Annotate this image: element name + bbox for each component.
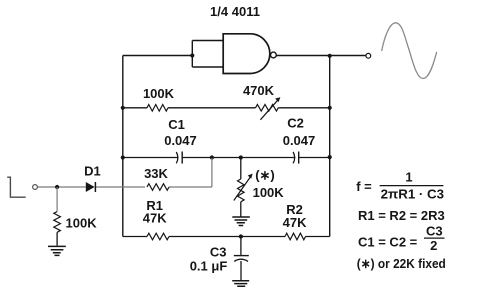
bubble on NAND output: [271, 52, 277, 58]
svg-text:100K: 100K: [253, 185, 285, 200]
svg-text:0.1 μF: 0.1 μF: [190, 259, 228, 274]
node left rail row3: [121, 155, 125, 159]
ground C3: [232, 281, 249, 287]
sine wave symbol: [382, 23, 437, 79]
node C1 junction: [210, 155, 214, 159]
wire left rail: [122, 56, 124, 237]
svg-text:2: 2: [430, 238, 437, 253]
svg-text:0.047: 0.047: [283, 133, 316, 148]
wire top input: [123, 55, 193, 57]
svg-text:0.047: 0.047: [164, 133, 197, 148]
svg-text:C2: C2: [287, 116, 304, 131]
resistor R1 47K: [147, 233, 169, 240]
svg-text:(∗): (∗): [255, 168, 275, 183]
node output junction: [328, 54, 332, 58]
resistor 100K top: [147, 105, 168, 112]
capacitor C1: [176, 152, 178, 163]
input terminal circle: [33, 185, 38, 190]
svg-text:R1 = R2 = 2R3: R1 = R2 = 2R3: [358, 208, 445, 223]
svg-text:C1: C1: [168, 117, 185, 132]
svg-text:470K: 470K: [243, 83, 275, 98]
svg-text:D1: D1: [84, 164, 101, 179]
wire gate input bracket: [192, 41, 223, 68]
wire pulldown gray: [56, 187, 58, 212]
node right rail row3: [328, 155, 332, 159]
potentiometer (*) 100K vertical: [240, 158, 242, 180]
svg-text:100K: 100K: [143, 86, 175, 101]
svg-text:47K: 47K: [143, 211, 167, 226]
capacitor C2: [293, 152, 295, 163]
resistor 100K pulldown: [54, 212, 61, 233]
svg-text:C3: C3: [210, 245, 227, 260]
node pot junction: [239, 155, 243, 159]
wire C1/C2 row: [123, 157, 330, 159]
svg-text:1: 1: [405, 170, 412, 185]
svg-text:33K: 33K: [144, 166, 168, 181]
svg-text:f =: f =: [356, 179, 372, 194]
wire right rail: [329, 56, 331, 237]
svg-text:C1 = C2 =: C1 = C2 =: [358, 235, 418, 250]
resistor 33K: [147, 184, 169, 191]
diode D1: [86, 182, 95, 192]
svg-text:2πR1 · C3: 2πR1 · C3: [381, 187, 445, 202]
output terminal circle: [366, 53, 371, 58]
svg-text:1/4 4011: 1/4 4011: [210, 4, 260, 19]
svg-text:C3: C3: [426, 223, 443, 238]
capacitor C3: [240, 237, 242, 255]
potentiometer 470K: [256, 105, 279, 112]
node left rail row2: [121, 106, 125, 110]
svg-text:(∗) or 22K fixed: (∗) or 22K fixed: [357, 256, 446, 271]
node input junction: [55, 185, 59, 189]
node gate input tie: [190, 53, 194, 57]
input step waveform symbol: [7, 177, 26, 197]
node C3 junction: [239, 234, 243, 238]
svg-text:47K: 47K: [283, 215, 307, 230]
wire 100K/470K row: [123, 107, 330, 109]
resistor R2 47K: [285, 233, 306, 240]
ground pot: [232, 217, 250, 226]
ground input: [48, 246, 66, 255]
wire diode row gray: [38, 158, 212, 187]
wire NAND output: [276, 55, 365, 57]
svg-text:100K: 100K: [66, 216, 98, 231]
node right rail row2: [328, 106, 332, 110]
op-amp U1 NAND gate 4011: [223, 34, 270, 74]
wire bottom row: [123, 236, 330, 238]
